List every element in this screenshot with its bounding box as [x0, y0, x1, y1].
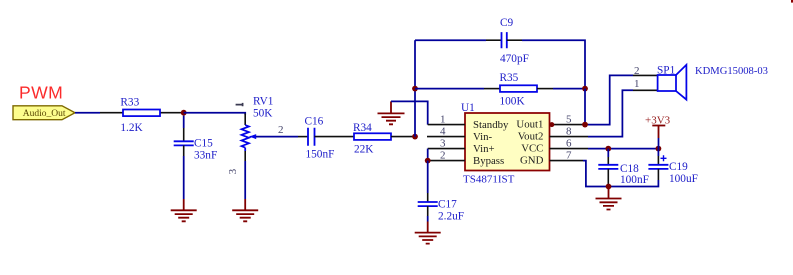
svg-text:100K: 100K [500, 96, 526, 108]
ground under C17 [415, 222, 441, 244]
svg-text:100nF: 100nF [620, 174, 649, 186]
node junction pin5 output [582, 122, 588, 128]
svg-text:2: 2 [634, 65, 640, 77]
svg-text:U1: U1 [461, 102, 475, 114]
wire pin7 GND rail [583, 161, 658, 187]
svg-text:1: 1 [634, 78, 640, 90]
svg-text:TS4871IST: TS4871IST [463, 174, 515, 186]
svg-text:50K: 50K [253, 108, 273, 120]
wire pin5 to speaker [588, 75, 633, 124]
wire bypass node to C17 [427, 161, 429, 193]
node junction C18 top [605, 146, 611, 152]
capacitor C19 polarized [648, 149, 697, 185]
svg-text:4: 4 [440, 125, 446, 137]
svg-text:6: 6 [566, 137, 572, 149]
pin 1 Standby [428, 113, 509, 131]
svg-text:2.2uF: 2.2uF [438, 210, 464, 222]
sheet border corner mark [791, 0, 793, 3]
pin 8 Vout2 [518, 125, 588, 142]
svg-text:Uout1: Uout1 [516, 119, 543, 131]
wire junction to RV1 [184, 113, 246, 115]
pin 6 VCC [521, 137, 588, 154]
pin 3 Vin+ [428, 137, 495, 155]
svg-text:C15: C15 [194, 138, 213, 150]
svg-text:Bypass: Bypass [473, 155, 504, 167]
svg-text:R33: R33 [120, 97, 139, 109]
svg-text:Audio_Out: Audio_Out [23, 109, 66, 119]
svg-text:33nF: 33nF [194, 150, 217, 162]
svg-text:C19: C19 [669, 161, 688, 173]
wire pin1 to ground [391, 101, 428, 124]
net label PWM [19, 83, 63, 103]
svg-text:R34: R34 [353, 122, 372, 134]
node junction R35 left [412, 86, 418, 92]
svg-text:GND: GND [520, 155, 544, 167]
potentiometer RV1 [227, 96, 283, 200]
wire pin6 VCC row [588, 148, 658, 150]
svg-text:150nF: 150nF [306, 148, 335, 160]
svg-text:2: 2 [440, 149, 446, 161]
speaker SP1 [633, 64, 768, 99]
svg-text:7: 7 [566, 149, 572, 161]
svg-text:2: 2 [278, 124, 284, 136]
svg-text:KDMG15008-03: KDMG15008-03 [695, 66, 768, 77]
ground under C18 [596, 187, 622, 210]
pin 5 Uout1 [516, 113, 588, 130]
svg-text:22K: 22K [354, 143, 374, 155]
svg-text:Vin+: Vin+ [473, 143, 495, 155]
svg-text:C17: C17 [438, 198, 457, 210]
pin dot Uout1 [549, 122, 554, 127]
node junction R34/pin4 [412, 134, 418, 140]
svg-text:RV1: RV1 [253, 96, 273, 108]
pin 7 GND [520, 149, 583, 166]
ground near pin1 [378, 101, 405, 124]
svg-text:1.2K: 1.2K [120, 122, 143, 134]
capacitor C18 [598, 149, 649, 187]
power +3V3 [645, 114, 671, 148]
svg-text:470pF: 470pF [500, 53, 529, 65]
svg-text:Vout2: Vout2 [518, 131, 544, 143]
wire port to R33 [75, 112, 100, 114]
svg-text:PWM: PWM [19, 83, 63, 103]
wire pin8 to speaker [588, 90, 633, 136]
svg-text:Standby: Standby [473, 119, 509, 131]
wire feedback left vertical [414, 40, 416, 136]
svg-text:8: 8 [566, 125, 572, 137]
pin 2 Bypass [428, 149, 505, 167]
capacitor C17 [418, 193, 464, 222]
svg-text:5: 5 [566, 113, 572, 125]
node junction R35 right [582, 86, 588, 92]
svg-text:3: 3 [227, 168, 239, 174]
wire pin3 to bypass node [427, 149, 429, 161]
wire R35 row left [415, 88, 484, 90]
svg-text:R35: R35 [500, 72, 519, 84]
svg-text:1: 1 [440, 113, 446, 125]
svg-text:SP1: SP1 [657, 64, 675, 76]
svg-text:C16: C16 [305, 116, 324, 128]
svg-text:Vin-: Vin- [473, 131, 493, 143]
port Audio_Out [13, 106, 75, 120]
wire R35 to right vertical [553, 88, 585, 90]
resistor R35 [484, 72, 553, 107]
capacitor C9 [486, 17, 529, 65]
ground under C15 [171, 199, 197, 221]
wire C9 top row [415, 39, 486, 41]
svg-text:C9: C9 [500, 17, 514, 29]
node junction C18 bottom [606, 184, 612, 190]
svg-text:+3V3: +3V3 [645, 114, 671, 126]
capacitor C16 [298, 116, 354, 161]
svg-text:100uF: 100uF [669, 173, 698, 185]
node junction bypass [425, 158, 431, 164]
IC U1 TS4871IST [461, 102, 550, 186]
resistor R34 [353, 122, 415, 156]
ground under RV1 [232, 199, 258, 221]
node junction C19 top [656, 146, 662, 152]
svg-text:VCC: VCC [521, 143, 543, 155]
capacitor C15 [174, 116, 218, 199]
node junction R33/C15 [181, 110, 187, 116]
wire right vertical to pin5 [584, 89, 586, 125]
wire RV1 wiper to C16 [256, 136, 298, 138]
wire C9 to right vertical [522, 40, 585, 88]
resistor R33 [100, 97, 184, 134]
svg-text:3: 3 [440, 137, 446, 149]
svg-text:C18: C18 [620, 163, 639, 175]
pin 4 Vin- [427, 125, 493, 143]
